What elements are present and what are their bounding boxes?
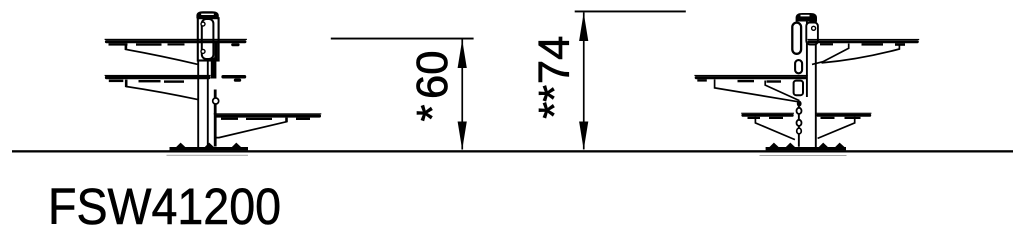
brace R3 left	[755, 117, 795, 140]
platform L1 board	[105, 40, 247, 43]
chain wire	[798, 104, 800, 147]
brace R3 right	[818, 117, 855, 139]
bolt on bracket lower	[201, 49, 205, 53]
platform L2 right board	[221, 75, 246, 79]
platform L1 top line	[105, 39, 247, 40]
platform L2 slat ticks	[109, 80, 124, 83]
anchor foot L-a	[176, 143, 186, 148]
platform R2 board	[695, 76, 808, 79]
clevis below capsule	[795, 60, 802, 73]
platform R3 left ticks	[748, 117, 761, 119]
svg-text:**74: **74	[531, 36, 579, 119]
post P1 cap	[196, 11, 218, 18]
hanger block right of post P1	[211, 58, 217, 79]
platform L3 top line	[214, 113, 322, 114]
post P2 left edge	[806, 20, 808, 97]
anchor foot R-d	[835, 143, 845, 148]
post P1 cap notch	[201, 13, 214, 15]
platform R1 top line	[808, 39, 920, 40]
platform R2 slat ticks	[738, 80, 755, 82]
platform R3 right board	[816, 114, 871, 117]
platform R3 right ticks	[821, 117, 835, 119]
ground line	[12, 150, 1013, 152]
anchor foot R-a	[769, 143, 779, 148]
post P2 top edge	[806, 20, 817, 22]
base plate left	[170, 147, 249, 150]
base plate right	[766, 147, 846, 150]
brace R2 far	[765, 81, 799, 101]
brace R2 near	[715, 79, 799, 101]
svg-text:*60: *60	[409, 51, 457, 122]
bracket below platform R2	[794, 81, 803, 96]
platform L1 slat ticks	[109, 43, 128, 45]
dim1 arrowhead up	[458, 40, 467, 68]
dim2 arrow line	[583, 12, 585, 149]
hanger rod lower right of post P1	[214, 90, 217, 147]
svg-text:FSW41200: FSW41200	[48, 178, 281, 235]
base shadow line right	[760, 155, 847, 156]
dim1 reference line	[331, 38, 474, 40]
hanger bar right of post P1	[213, 43, 216, 60]
platform R1 slat ticks	[820, 43, 833, 45]
dim2 arrowhead down	[579, 122, 588, 150]
platform R3 left board	[741, 114, 793, 117]
dim1 arrowhead down	[458, 122, 467, 150]
inner bracket on post P1	[202, 19, 214, 59]
post P2 body fill	[805, 20, 817, 148]
bolt on top bracket	[812, 26, 816, 30]
top bracket inside post P2	[806, 23, 818, 45]
post P1 top sleeve	[198, 18, 219, 60]
platform L2 left board	[105, 76, 211, 80]
capsule handle left of post P2	[792, 23, 801, 54]
dim2 reference line	[575, 11, 686, 13]
brace L2	[126, 86, 199, 99]
base shadow line left	[167, 155, 249, 156]
brace R1 far	[822, 45, 900, 63]
dim2 arrowhead up	[579, 13, 588, 41]
anchor foot L-b	[204, 143, 214, 148]
post P2 cap	[796, 13, 817, 22]
platform R3 left top line	[741, 113, 794, 114]
brace L1 stub	[125, 44, 128, 51]
platform L2 top line	[105, 75, 211, 76]
platform R2 top line	[694, 75, 807, 76]
chain pivot blob	[797, 101, 802, 107]
chain link 1	[797, 108, 802, 114]
post P2 right edge	[815, 20, 817, 149]
platform L2 right nub	[234, 79, 241, 82]
brace R1 near	[812, 44, 849, 65]
platform R1 board	[808, 40, 919, 43]
post P2 cap notch	[801, 15, 810, 17]
post P1 body	[198, 55, 208, 148]
chain link 3	[797, 128, 802, 134]
platform L3 slat ticks	[221, 118, 238, 120]
bolt on bracket upper	[201, 22, 205, 26]
chain link 2	[797, 120, 802, 126]
pivot circle on rod	[213, 98, 219, 104]
brace L2 stub	[125, 80, 128, 87]
platform L1 right nub	[231, 43, 239, 46]
brace L1	[125, 49, 197, 64]
platform L3 board	[214, 114, 321, 117]
dim1 arrow line	[461, 40, 463, 150]
platform R2 left bevel tick	[697, 79, 707, 81]
anchor foot L-c	[232, 143, 242, 148]
brace L3 stub	[285, 118, 288, 123]
anchor foot R-b	[786, 143, 796, 148]
brace L3	[215, 122, 287, 138]
anchor foot R-c	[818, 143, 828, 148]
platform R3 right top line	[816, 113, 871, 114]
